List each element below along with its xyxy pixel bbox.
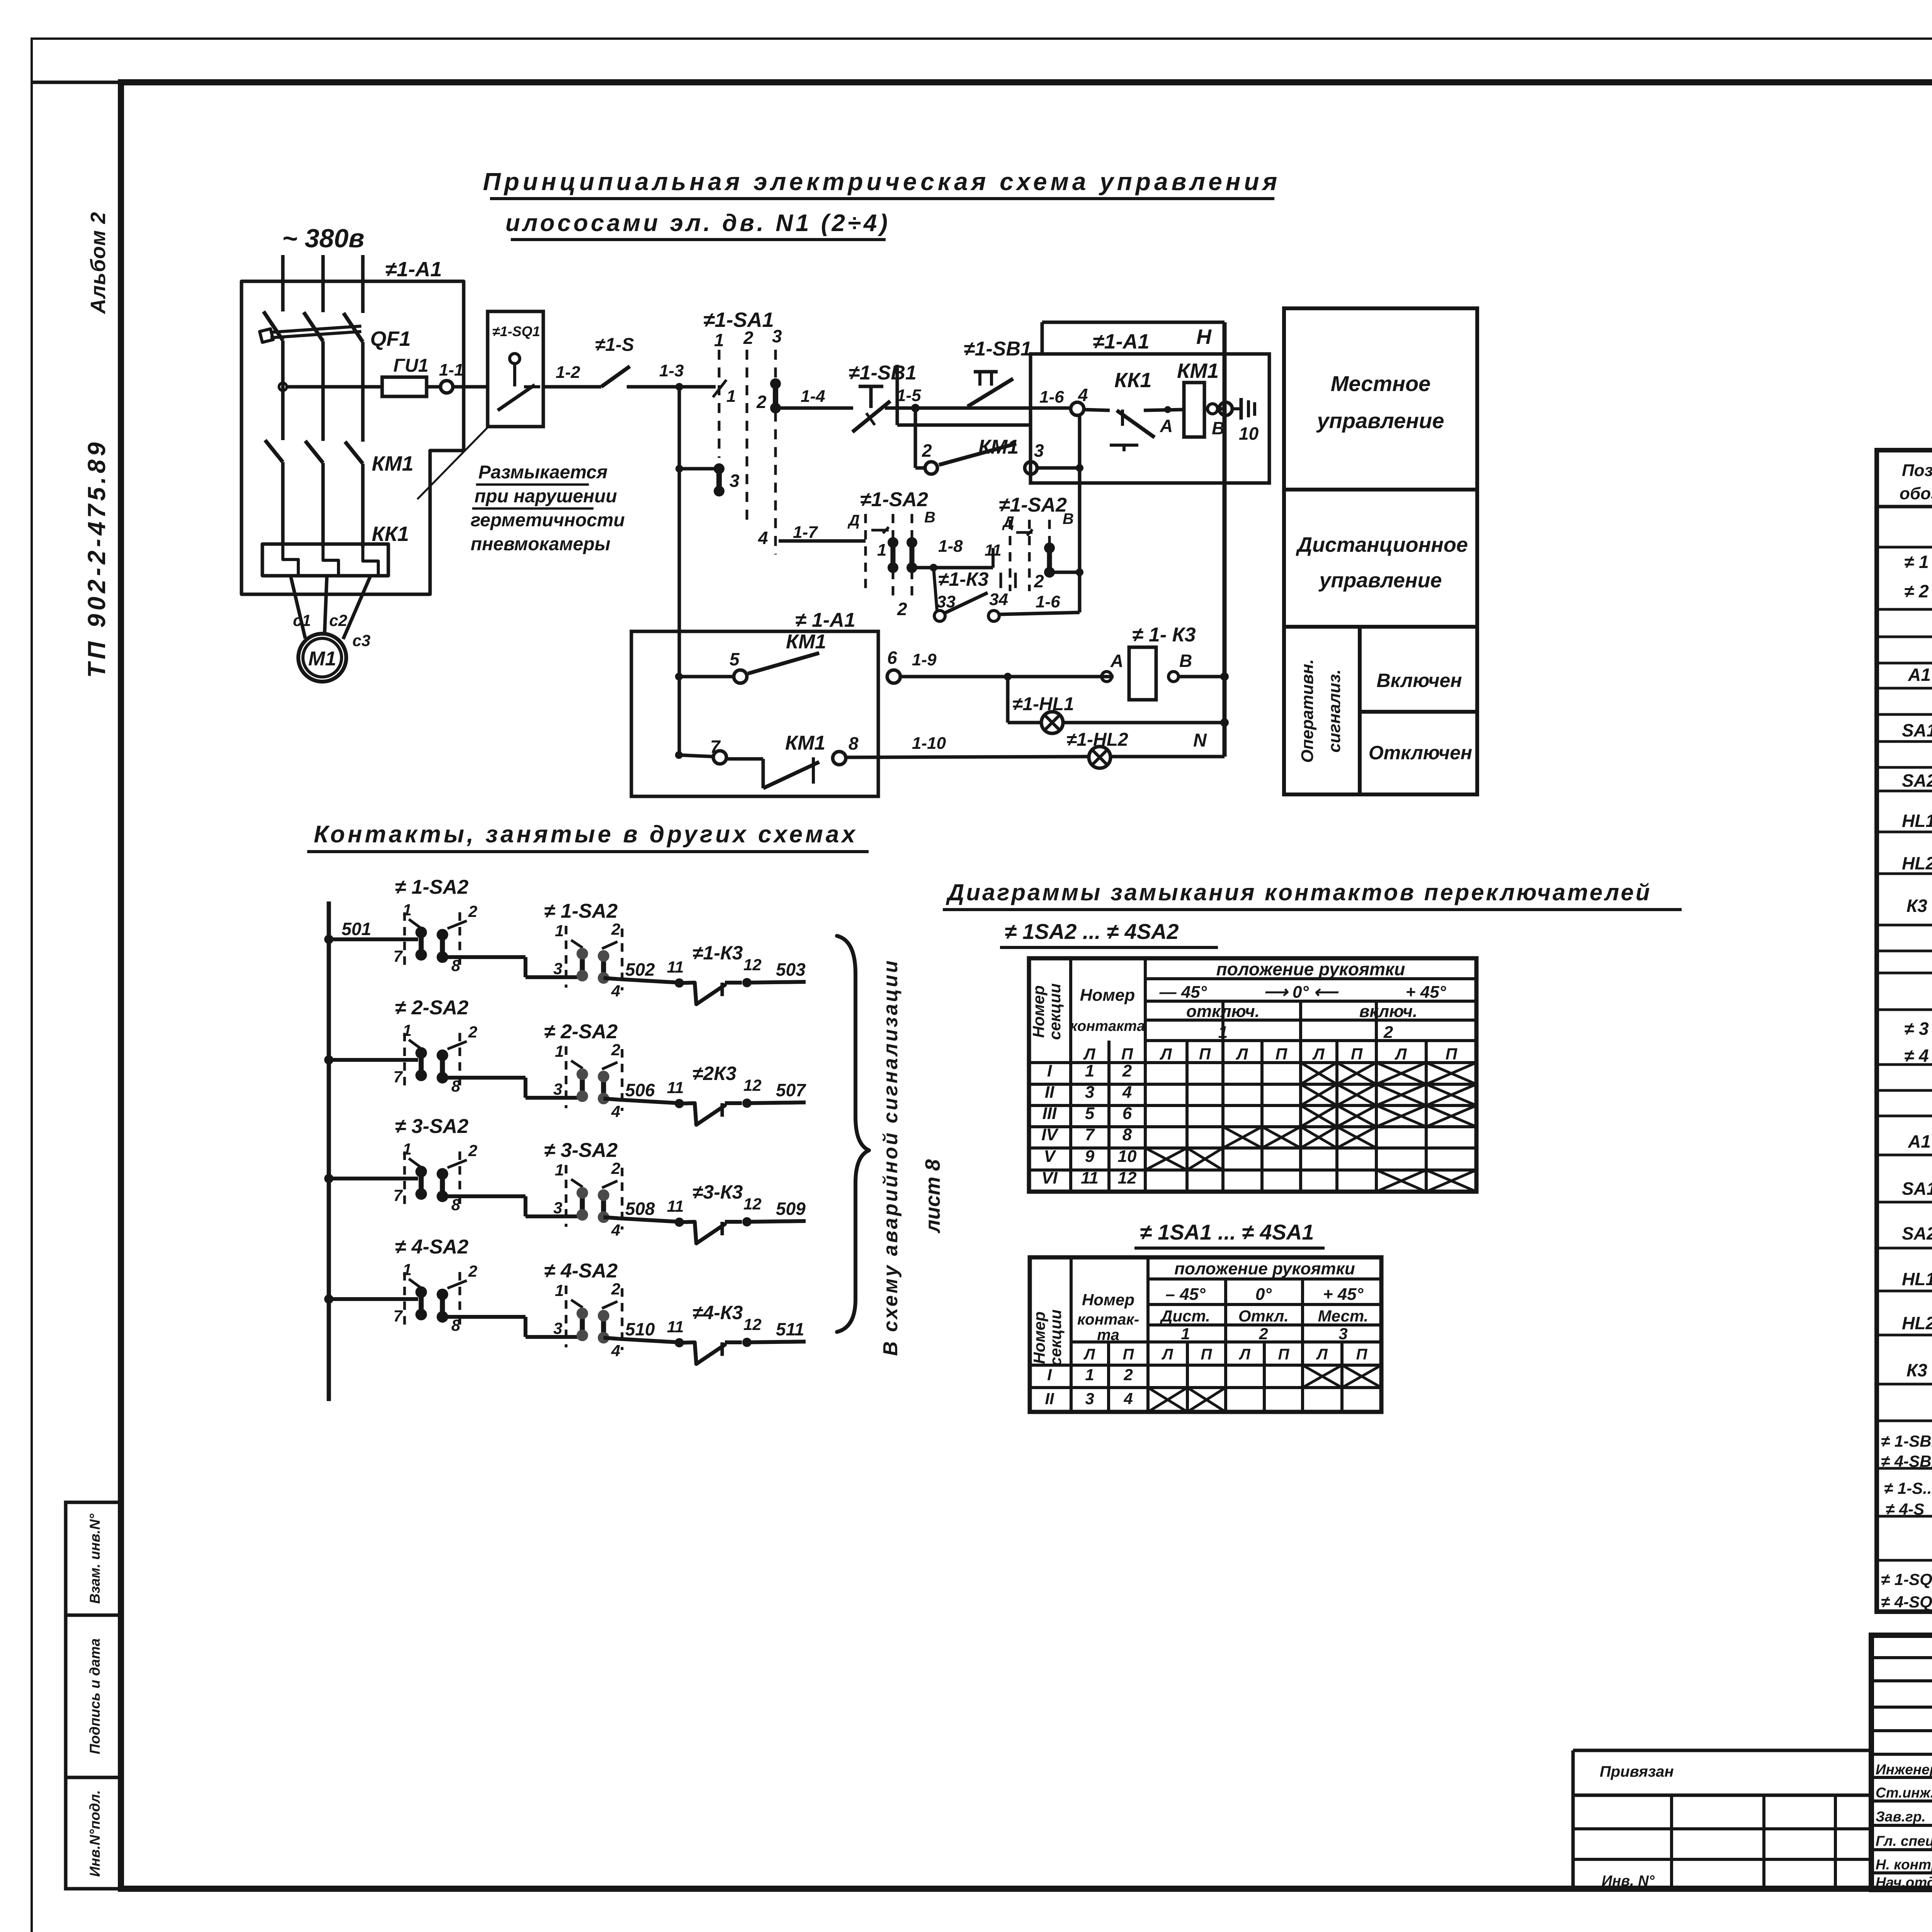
svg-text:П: П [1446, 1045, 1458, 1063]
svg-text:4: 4 [1122, 1083, 1132, 1102]
svg-text:8: 8 [849, 733, 859, 753]
svg-text:10: 10 [1239, 423, 1259, 444]
SA1 dashed section line 1 [718, 350, 721, 458]
svg-text:IV: IV [1041, 1125, 1059, 1144]
svg-text:QF1: QF1 [370, 327, 411, 350]
svg-text:отключ.: отключ. [1186, 1002, 1260, 1021]
wire row 3 left [329, 1177, 418, 1180]
svg-text:1: 1 [403, 1260, 412, 1279]
svg-text:11: 11 [667, 1078, 684, 1097]
svg-text:Л: Л [1160, 1045, 1172, 1063]
svg-text:8: 8 [451, 956, 461, 975]
svg-text:II: II [1045, 1389, 1054, 1408]
svg-text:1: 1 [555, 1042, 564, 1060]
X marks SA2 [1301, 1063, 1337, 1084]
svg-text:П: П [1123, 1346, 1134, 1363]
contactor coil KM1 [1184, 383, 1204, 437]
svg-text:3: 3 [1034, 440, 1044, 461]
svg-text:510: 510 [625, 1319, 655, 1339]
svg-text:5: 5 [1085, 1104, 1095, 1123]
N bus top wire [1042, 321, 1225, 324]
svg-text:≠1-К3: ≠1-К3 [692, 942, 743, 964]
svg-text:Н. контр,: Н. контр, [1876, 1857, 1932, 1872]
svg-text:502: 502 [625, 959, 655, 980]
svg-text:3: 3 [772, 326, 782, 346]
svg-text:5: 5 [730, 649, 740, 669]
SA2 right jumper contact [1047, 548, 1052, 572]
svg-text:≠1-HL2: ≠1-HL2 [1066, 730, 1128, 750]
svg-text:≠1-К3: ≠1-К3 [938, 568, 989, 590]
svg-text:Л: Л [1083, 1346, 1095, 1363]
svg-text:12: 12 [743, 1076, 762, 1094]
svg-text:≠ 4-SQ: ≠ 4-SQ [1881, 1593, 1932, 1611]
svg-text:2: 2 [1123, 1366, 1133, 1384]
svg-text:SA2: SA2 [1902, 770, 1932, 791]
svg-text:≠ 1-SA2: ≠ 1-SA2 [395, 876, 468, 898]
svg-text:11: 11 [667, 958, 684, 976]
svg-text:HL2: HL2 [1902, 1313, 1932, 1333]
svg-text:4: 4 [611, 1102, 620, 1121]
breaker QF1 pole 3 [344, 313, 363, 342]
svg-text:2: 2 [897, 599, 907, 619]
svg-text:с3: с3 [352, 631, 371, 650]
svg-text:4: 4 [611, 982, 620, 1000]
svg-text:2: 2 [743, 328, 753, 348]
svg-text:503: 503 [776, 959, 806, 980]
svg-text:4: 4 [611, 1221, 620, 1239]
svg-text:2: 2 [468, 1262, 477, 1280]
svg-text:секции: секции [1046, 1310, 1065, 1366]
KK1 NC contact [1084, 410, 1110, 410]
svg-text:≠ 1-SB1...: ≠ 1-SB1... [1881, 1432, 1932, 1450]
svg-text:≠ 3: ≠ 3 [1904, 1019, 1929, 1039]
svg-text:В: В [1063, 510, 1074, 527]
svg-text:≠3-К3: ≠3-К3 [692, 1181, 743, 1203]
wire row 2 right [747, 1102, 806, 1103]
svg-text:501: 501 [342, 919, 371, 939]
svg-text:≠ 2-SA2: ≠ 2-SA2 [395, 997, 468, 1019]
step wire row 1 [442, 955, 526, 959]
svg-text:4: 4 [1123, 1389, 1133, 1408]
svg-text:А1: А1 [1908, 1131, 1931, 1151]
self hold branch from 1-5 [914, 408, 917, 468]
svg-text:1-8: 1-8 [938, 537, 963, 556]
svg-text:V: V [1044, 1147, 1056, 1166]
motor leads [291, 576, 305, 638]
SA2 group A dashed row 1 [403, 912, 406, 969]
svg-text:Мест.: Мест. [1318, 1307, 1369, 1325]
wire fuse to node 1-1 [427, 385, 440, 389]
svg-text:ГU1: ГU1 [393, 355, 429, 376]
contactor KM1 pole 2 [305, 441, 323, 463]
svg-text:пневмокамеры: пневмокамеры [471, 534, 611, 554]
svg-text:В схему аварийной сигнализац: В схему аварийной сигнализации [879, 959, 902, 1356]
wire SQ1 to switch 1-S [543, 385, 601, 389]
SA2 group A dashed row 2 [403, 1033, 406, 1090]
cabinet box 1-A1 power [241, 281, 464, 594]
svg-text:~ 380в: ~ 380в [282, 224, 364, 253]
KM1 aux contact 2-3 [925, 462, 937, 474]
step wire row 4 [442, 1315, 526, 1319]
svg-text:I: I [1047, 1366, 1052, 1384]
svg-text:HL2: HL2 [1902, 853, 1932, 873]
svg-text:8: 8 [451, 1196, 461, 1214]
svg-text:≠ 3-SA2: ≠ 3-SA2 [544, 1139, 617, 1162]
svg-text:2: 2 [1259, 1325, 1268, 1343]
stamp thin rows top [1871, 1656, 1932, 1659]
svg-text:Подпись и дата: Подпись и дата [87, 1638, 103, 1754]
node on bus row 3 [324, 1174, 333, 1183]
SA1 dashed section line 2 [746, 350, 748, 526]
svg-text:≠ 4-SA2: ≠ 4-SA2 [544, 1260, 617, 1282]
wire L2 mid [321, 341, 325, 441]
svg-text:Контакты, занятые в других: Контакты, занятые в других схемах [314, 821, 858, 848]
contacts bus [327, 901, 331, 1401]
motor M1 [298, 634, 346, 682]
svg-text:ТП 902-2-475.89: ТП 902-2-475.89 [83, 439, 111, 678]
wire row 1 left [329, 937, 418, 941]
svg-text:1-1: 1-1 [439, 361, 464, 379]
phase wire L3 top [361, 255, 365, 313]
svg-text:2: 2 [922, 440, 932, 461]
svg-text:9: 9 [1085, 1147, 1095, 1166]
wire 1-4 [776, 406, 853, 410]
svg-text:П: П [1351, 1045, 1363, 1063]
limit switch box 1-SQ1 [488, 311, 543, 427]
node tap on L1 [279, 383, 287, 391]
svg-text:11: 11 [1081, 1168, 1099, 1187]
svg-text:та: та [1097, 1327, 1119, 1344]
svg-text:7: 7 [393, 947, 403, 965]
svg-text:илососами эл. дв. N1 (2÷4): илососами эл. дв. N1 (2÷4) [505, 210, 890, 236]
SA2 group A dashed row 3 [403, 1151, 406, 1209]
svg-text:управление: управление [1318, 569, 1442, 592]
svg-text:3: 3 [553, 1199, 562, 1217]
svg-text:4: 4 [611, 1342, 620, 1360]
contactor KM1 pole 3 [345, 442, 363, 464]
node on vertical row 1-10 [675, 751, 683, 759]
svg-text:6: 6 [1122, 1104, 1132, 1123]
wire row 1 right [747, 982, 806, 983]
lamp 1-HL1 [1041, 712, 1063, 733]
SA1 jumper contact section 1 (3) [675, 465, 683, 473]
svg-text:11: 11 [667, 1197, 684, 1215]
svg-text:3: 3 [553, 959, 562, 978]
svg-text:П: П [1356, 1346, 1368, 1363]
SA2 group A dashed row 4 [403, 1272, 406, 1329]
control tap wire [287, 385, 382, 389]
wire 1-9 [900, 675, 1114, 679]
svg-text:≠1-SQ1: ≠1-SQ1 [492, 323, 540, 339]
svg-text:Ст.инж.: Ст.инж. [1876, 1785, 1932, 1801]
table SA2 diagram [1029, 958, 1476, 1192]
svg-text:1-4: 1-4 [801, 387, 825, 406]
svg-text:≠ 2-SA2: ≠ 2-SA2 [544, 1020, 617, 1043]
svg-text:П: П [1278, 1346, 1290, 1363]
svg-text:508: 508 [625, 1199, 655, 1219]
svg-text:≠ 1SA1 ... ≠ 4SA1: ≠ 1SA1 ... ≠ 4SA1 [1140, 1220, 1314, 1244]
svg-text:Принципиальная электрическая: Принципиальная электрическая схема управ… [483, 168, 1281, 196]
svg-text:Номер: Номер [1030, 1311, 1048, 1364]
svg-text:Л: Л [1238, 1346, 1251, 1363]
sidebar cells [66, 1502, 121, 1889]
svg-text:12: 12 [743, 1195, 762, 1213]
svg-text:1: 1 [555, 922, 564, 940]
wire 1-5 to node 4 [915, 406, 1070, 410]
svg-text:Д: Д [1002, 514, 1014, 531]
svg-text:≠2К3: ≠2К3 [692, 1063, 736, 1084]
svg-text:Размыкается: Размыкается [478, 462, 607, 483]
svg-text:I: I [1047, 1061, 1052, 1080]
svg-text:3: 3 [1085, 1389, 1094, 1408]
svg-text:Привязан: Привязан [1600, 1763, 1674, 1780]
wire lamp to bus [1063, 721, 1225, 724]
svg-text:П: П [1199, 1045, 1211, 1063]
wire node 1-1 to SQ1 [453, 385, 488, 389]
svg-text:1-10: 1-10 [912, 734, 946, 753]
svg-text:1-6: 1-6 [1039, 388, 1064, 406]
svg-text:SA1: SA1 [1902, 1179, 1932, 1199]
svg-text:≠1-SA1: ≠1-SA1 [703, 308, 774, 332]
svg-text:1: 1 [726, 387, 736, 406]
thermal relay KK1 [262, 544, 388, 576]
svg-text:3: 3 [553, 1319, 562, 1337]
svg-text:А: А [1110, 651, 1123, 671]
svg-text:≠1-SA2: ≠1-SA2 [860, 488, 928, 511]
phase wire L2 top [321, 255, 325, 312]
jumper contacts gray row 1 [580, 954, 585, 976]
wire 1-8 [912, 566, 993, 570]
svg-text:2: 2 [611, 1159, 620, 1177]
svg-text:П: П [1201, 1346, 1213, 1363]
svg-text:КМ1: КМ1 [372, 452, 413, 475]
jumper contacts gray row 4 [580, 1313, 585, 1335]
wire lamp2 to bus [1111, 755, 1225, 759]
wire node 1-3 to SA1 [679, 385, 716, 389]
node 4 open circle [1071, 402, 1084, 415]
SA2 group B dashed row 3 [565, 1165, 568, 1227]
svg-text:КК1: КК1 [1114, 369, 1151, 392]
svg-text:Взам. инв.N°: Взам. инв.N° [87, 1514, 103, 1604]
svg-text:с2: с2 [329, 611, 347, 629]
wire to relay contact row 3 [604, 1217, 619, 1218]
SA2 group B dashed row 4 [565, 1286, 568, 1347]
svg-text:Л: Л [1395, 1045, 1407, 1063]
svg-text:1: 1 [555, 1281, 564, 1299]
svg-text:2: 2 [468, 1141, 477, 1160]
svg-text:506: 506 [625, 1080, 655, 1100]
jumper contacts solid row 4 [419, 1292, 424, 1315]
node on bus row 2 [324, 1055, 333, 1065]
svg-text:HL1: HL1 [1902, 1269, 1932, 1289]
svg-text:КМ1: КМ1 [786, 631, 826, 653]
parts table frame [1877, 450, 1932, 1612]
table SA1 diagram [1030, 1257, 1381, 1412]
wire jumper to vertical [1049, 571, 1080, 574]
breaker QF1 pole 2 [304, 312, 323, 341]
svg-text:8: 8 [451, 1077, 461, 1095]
svg-text:12: 12 [743, 956, 762, 974]
svg-text:1-9: 1-9 [912, 650, 937, 669]
top band line [32, 81, 1932, 84]
svg-text:Отключен: Отключен [1369, 742, 1472, 764]
svg-text:секции: секции [1046, 983, 1064, 1040]
svg-text:Нач.отд.: Нач.отд. [1876, 1874, 1932, 1890]
contactor KM1 pole 1 [265, 440, 283, 462]
svg-text:≠ 3-SA2: ≠ 3-SA2 [395, 1115, 468, 1138]
svg-text:II: II [1045, 1083, 1054, 1102]
svg-text:2: 2 [611, 1041, 620, 1059]
svg-text:контакта: контакта [1070, 1018, 1145, 1034]
lamp branch wire [1006, 677, 1010, 723]
svg-text:Н: Н [1196, 325, 1212, 349]
control block box 1-A1 [1031, 354, 1269, 483]
svg-text:КМ1: КМ1 [785, 732, 825, 754]
svg-text:2: 2 [1383, 1023, 1393, 1042]
wire 1-10 [846, 757, 1089, 757]
svg-text:10: 10 [1118, 1147, 1137, 1166]
svg-text:+ 45°: + 45° [1323, 1285, 1364, 1304]
svg-text:1: 1 [403, 1021, 412, 1039]
svg-text:≠1-SB1: ≠1-SB1 [849, 362, 917, 384]
svg-text:1: 1 [1085, 1366, 1094, 1384]
svg-text:≠1-А1: ≠1-А1 [1093, 330, 1150, 353]
svg-text:≠4-К3: ≠4-К3 [692, 1302, 743, 1323]
SA2 left dashed lines [864, 514, 867, 591]
svg-text:≠ 2: ≠ 2 [1904, 581, 1929, 601]
wire to node 1-3 [627, 385, 679, 389]
svg-text:≠ 4-SB1: ≠ 4-SB1 [1881, 1452, 1932, 1470]
svg-text:1-5: 1-5 [896, 386, 921, 405]
wire L1 mid [281, 340, 285, 440]
N bus vertical [1223, 322, 1227, 757]
svg-text:3: 3 [730, 471, 740, 491]
jumper contacts solid row 2 [419, 1053, 424, 1075]
svg-text:Л: Л [1236, 1045, 1248, 1063]
svg-text:Номер: Номер [1082, 1291, 1134, 1309]
svg-text:П: П [1276, 1045, 1287, 1063]
svg-text:2: 2 [1034, 571, 1044, 591]
jumper contacts solid row 3 [419, 1172, 424, 1194]
svg-text:1-3: 1-3 [659, 361, 684, 380]
svg-text:2: 2 [611, 920, 620, 938]
wire contact 3 to vertical [1037, 466, 1080, 470]
svg-text:11: 11 [985, 541, 1002, 559]
svg-text:Включен: Включен [1376, 670, 1462, 691]
breaker QF1 tie bar [270, 326, 361, 332]
svg-text:SA1: SA1 [1902, 720, 1932, 740]
wire row 2 left [329, 1058, 418, 1062]
svg-text:Инв.N°подл.: Инв.N°подл. [87, 1790, 103, 1877]
svg-text:1: 1 [1181, 1325, 1190, 1343]
svg-text:≠1-SA2: ≠1-SA2 [999, 494, 1067, 516]
svg-text:Альбом 2: Альбом 2 [87, 212, 110, 315]
svg-text:Диаграммы замыкания контакто: Диаграммы замыкания контактов переключат… [946, 879, 1652, 905]
svg-text:сигнализ.: сигнализ. [1325, 669, 1344, 752]
KM1 aux NC contact 7-8 [713, 751, 726, 764]
svg-text:Д: Д [847, 512, 860, 529]
svg-text:с1: с1 [293, 611, 311, 629]
svg-text:1: 1 [1085, 1061, 1094, 1080]
svg-text:2: 2 [468, 902, 477, 920]
svg-text:управление: управление [1316, 408, 1444, 433]
wire 1-7 [779, 539, 866, 543]
svg-text:7: 7 [710, 736, 721, 757]
svg-text:1: 1 [403, 901, 412, 919]
svg-text:7: 7 [393, 1068, 403, 1086]
svg-text:7: 7 [393, 1307, 403, 1325]
brace to alarm circuit [837, 936, 869, 1332]
bus node circle [1219, 402, 1232, 415]
svg-text:Л: Л [1312, 1045, 1325, 1063]
svg-text:герметичности: герметичности [471, 510, 625, 531]
svg-text:6: 6 [887, 648, 897, 668]
SA1 contact tick on line 1 [713, 380, 726, 397]
svg-text:1: 1 [877, 541, 886, 560]
node 1-5 [911, 404, 920, 412]
svg-text:≠ 1SA2 ... ≠ 4SA2: ≠ 1SA2 ... ≠ 4SA2 [1005, 919, 1179, 944]
SA2 right dashed lines [1009, 520, 1012, 591]
breaker QF1 pole 1 [264, 311, 283, 340]
svg-text:≠ 1-SA2: ≠ 1-SA2 [544, 900, 617, 922]
SA2 group B dashed row 1 [565, 926, 568, 988]
step wire row 3 [442, 1194, 526, 1198]
svg-text:≠ 4: ≠ 4 [1904, 1046, 1929, 1066]
jumper contacts gray row 3 [580, 1193, 585, 1215]
jumper contacts solid row 1 [419, 932, 424, 955]
svg-text:А: А [1160, 416, 1173, 436]
step wire row 2 [442, 1076, 526, 1080]
svg-text:8: 8 [451, 1316, 461, 1334]
svg-text:≠1-SB1: ≠1-SB1 [964, 338, 1032, 360]
svg-text:HL1: HL1 [1902, 811, 1932, 831]
svg-text:Откл.: Откл. [1238, 1307, 1289, 1325]
node on bus row 4 [324, 1294, 333, 1304]
node on bus row 1 [324, 935, 333, 944]
SA2 group B dashed row 2 [565, 1046, 568, 1108]
SA1 dashed section line 3 [774, 350, 777, 381]
svg-text:≠ 4-SA2: ≠ 4-SA2 [395, 1236, 468, 1258]
svg-text:Гл. спец.: Гл. спец. [1876, 1833, 1932, 1849]
SA1 jumper contact section 3 (2) [773, 384, 778, 408]
parts table header row [1877, 505, 1932, 509]
svg-text:обозн.: обозн. [1900, 484, 1932, 503]
svg-text:4: 4 [758, 528, 768, 548]
wire row 4 right [747, 1342, 806, 1342]
svg-text:П: П [1121, 1045, 1133, 1063]
leader line to note [417, 425, 490, 499]
svg-text:VI: VI [1041, 1168, 1058, 1187]
wire to coil [1144, 410, 1184, 410]
svg-text:2: 2 [468, 1023, 477, 1041]
X marks SA1 [1303, 1365, 1342, 1388]
svg-text:при нарушении: при нарушении [474, 486, 617, 507]
svg-text:3: 3 [1085, 1083, 1094, 1102]
svg-text:0°: 0° [1255, 1285, 1272, 1304]
svg-text:Номер: Номер [1080, 986, 1135, 1005]
svg-text:— 45°: — 45° [1159, 983, 1207, 1002]
privyazan block [1573, 1749, 1871, 1752]
svg-text:Дист.: Дист. [1160, 1307, 1210, 1325]
svg-text:КМ1: КМ1 [1177, 359, 1219, 383]
wire to node 1-5 [885, 406, 915, 410]
svg-text:Оперативн.: Оперативн. [1298, 659, 1317, 763]
svg-text:Инженер: Инженер [1876, 1762, 1932, 1777]
svg-text:≠ 1-S...: ≠ 1-S... [1884, 1479, 1932, 1497]
svg-text:КК1: КК1 [372, 522, 409, 546]
svg-text:12: 12 [1118, 1168, 1137, 1187]
svg-text:≠ 1- К3: ≠ 1- К3 [1132, 624, 1196, 646]
